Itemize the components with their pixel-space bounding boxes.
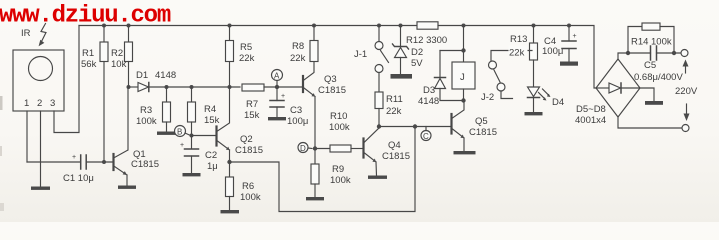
svg-text:IR: IR [21,28,31,39]
svg-text:D4: D4 [552,97,564,108]
ground C3 [268,117,286,120]
svg-text:R14: R14 [631,37,648,48]
transistor Q1 [114,87,129,185]
node dot D3 top [461,48,465,52]
svg-text:R9: R9 [332,164,344,175]
svg-text:22k: 22k [239,53,255,64]
svg-text:R1: R1 [82,48,94,59]
switch J-2 [489,61,513,99]
wire Q4 collector to Q5 base [379,126,451,128]
svg-text:C2: C2 [205,150,217,161]
node dot rail-relay [462,24,466,28]
resistor R6 [226,162,234,210]
node dot Q3 emitter / R9 / R10 [313,146,317,150]
svg-text:R13: R13 [510,34,527,45]
ground Q1 emitter [118,186,136,189]
svg-text:B: B [177,128,182,137]
node C [421,127,431,142]
ground D2 (thick bar) [391,74,413,79]
svg-text:+: + [72,154,76,161]
node dot rail-R5 [228,24,232,28]
svg-text:4001x4: 4001x4 [575,115,606,126]
svg-text:R8: R8 [292,41,304,52]
svg-text:1: 1 [24,98,29,109]
ground Q4 emitter [368,176,387,179]
node dot R7 left junction [228,85,232,89]
capacitor C2 [180,136,199,173]
node dot rail-R1 [102,24,106,28]
svg-text:15k: 15k [204,115,220,126]
svg-text:R3: R3 [140,105,152,116]
capacitor C5 [628,46,681,60]
svg-text:1μ: 1μ [207,161,218,172]
capacitor C1 [72,154,86,169]
node dot R3 top [165,85,169,89]
svg-text:10k: 10k [111,59,127,70]
svg-text:Q2: Q2 [240,134,253,145]
node dot rail-C4 [567,24,571,28]
svg-text:C1 10μ: C1 10μ [63,173,94,184]
node dot Q4 collector [377,124,381,128]
node dot R4 top [190,85,194,89]
node dot rail-J1 [377,24,381,28]
node dot feedback junction [413,124,417,128]
svg-text:Q5: Q5 [475,116,488,127]
node dot rail-D2 [399,24,403,28]
resistor R5 [226,26,234,62]
svg-text:4148: 4148 [418,96,439,107]
resistor R11 [375,73,383,127]
svg-text:A: A [274,72,280,81]
wire bridge top to C5 node [618,53,628,59]
svg-text:C1815: C1815 [469,127,497,138]
svg-text:100k: 100k [329,122,350,133]
node dot rail-R8 [312,24,316,28]
svg-text:100k: 100k [651,37,672,48]
ground Q5 emitter [454,151,476,154]
wire C1 to Q1 base [86,161,112,163]
wire node B to Q2 base [192,135,216,137]
svg-text:R2: R2 [111,48,123,59]
transistor Q4 [364,128,380,176]
resistor R8 [310,26,318,62]
svg-text:D3: D3 [423,85,435,96]
svg-text:15k: 15k [244,110,260,121]
svg-text:C: C [423,132,429,141]
node dot C3 top [275,85,279,89]
ground R9 [306,197,324,200]
resistor R7 (horizontal) [242,84,302,91]
capacitor C3 [270,87,285,117]
node dot C5 left [626,51,630,55]
capacitor C4 [562,26,577,62]
resistor R9 [311,149,319,197]
node dot rail-R2 [127,24,131,28]
svg-text:2: 2 [37,98,42,109]
svg-text:100k: 100k [330,175,351,186]
node dot relay bottom / Q5 collector [461,98,465,102]
diode D3 (flyback) [435,51,464,101]
resistor R3 [163,87,171,131]
node dot Q1 base junction [102,160,106,164]
resistor R1 [100,26,108,163]
svg-text:22k: 22k [509,48,525,59]
resistor R10 (horizontal) [315,145,363,152]
top rail wire after R12 [438,26,596,89]
LED D4 [528,60,551,112]
svg-text:5V: 5V [411,58,423,69]
svg-text:R10: R10 [330,111,347,122]
svg-text:+: + [281,93,285,100]
scan smudge left edge [0,96,3,110]
svg-text:C3: C3 [290,105,302,116]
svg-text:C1815: C1815 [131,159,159,170]
svg-text:22k: 22k [290,53,306,64]
node dot rail-R13 [532,24,536,28]
bridge rectifier D5-D8 [596,59,640,117]
svg-text:220V: 220V [675,86,698,97]
ground R6 [221,210,240,213]
svg-text:100μ: 100μ [542,46,563,57]
node dot C5 right [672,51,676,55]
svg-text:D2: D2 [411,47,423,58]
wire feedback loop Q2 emitter to C node [230,127,416,212]
wire D1 cathode line to Q3 base [167,86,241,88]
svg-text:C1815: C1815 [382,151,410,162]
svg-text:Q4: Q4 [388,140,401,151]
svg-text:R12 3300: R12 3300 [406,35,447,46]
ground C2 [183,173,201,176]
ground R3 [157,132,176,135]
svg-text:C1815: C1815 [235,145,263,156]
node dot D1 anode / Q1 collector [127,85,131,89]
svg-text:J: J [460,72,465,83]
ground bridge right [645,101,663,105]
node B [175,126,191,137]
svg-text:R11: R11 [386,94,403,105]
zener diode D2 [393,26,409,74]
ground D4 [525,112,543,115]
resistor R4 [188,87,196,136]
terminal 220V bottom [682,104,690,132]
resistor R12 (series in rail) [417,22,438,29]
svg-text:0.68μ/400V: 0.68μ/400V [634,72,683,83]
diode D1 [129,83,167,92]
svg-text:R7: R7 [246,99,258,110]
wire bridge right to ground [640,88,654,101]
svg-text:D1: D1 [136,70,148,81]
node dot R4 bottom / Q2 base [190,134,194,138]
ground C4 (thick bar) [560,62,578,66]
svg-text:C1815: C1815 [318,85,346,96]
IR signal lightning arrow [39,24,46,47]
relay coil J [452,26,475,101]
wire pin1 [26,111,28,162]
svg-text:100k: 100k [240,192,261,203]
svg-text:J-1: J-1 [354,49,367,60]
resistor R13 [530,26,538,61]
wire R13 bottom to J-2 [491,51,532,62]
svg-text:+: + [180,142,184,149]
svg-text:C5: C5 [644,60,656,71]
svg-text:+: + [573,33,577,40]
svg-text:R6: R6 [242,181,254,192]
IR receiver module box [13,50,64,111]
transistor Q2 [217,62,230,163]
transistor Q5 [452,101,465,151]
resistor R2 [125,26,133,88]
node D [298,143,312,154]
svg-text:56k: 56k [81,59,97,70]
wire pin1 to C1 [27,161,80,163]
svg-text:3: 3 [50,98,55,109]
svg-text:100k: 100k [136,116,157,127]
switch J-1 [375,26,389,73]
svg-text:Q3: Q3 [324,74,337,85]
ground pin2 [31,187,50,190]
resistor R14 (horizontal, parallel C5) [628,23,674,53]
node dot Q2 emitter / R6 / feedback [227,160,231,164]
wire pin3 to top rail [54,26,79,133]
node A [272,70,283,86]
svg-text:D: D [300,144,306,153]
svg-text:R5: R5 [240,42,252,53]
IR sensor lens circle [29,57,53,81]
svg-text:100μ: 100μ [287,116,308,127]
top rail wire [79,25,417,27]
transistor Q3 [303,62,315,149]
wire bridge bottom to terminal [618,117,682,128]
svg-text:R4: R4 [204,104,216,115]
svg-text:4148: 4148 [155,70,176,81]
svg-text:D5~D8: D5~D8 [576,104,606,115]
svg-text:J-2: J-2 [481,92,494,103]
wire pin2 [40,111,42,186]
terminal 220V top [681,50,689,74]
svg-text:22k: 22k [386,106,402,117]
